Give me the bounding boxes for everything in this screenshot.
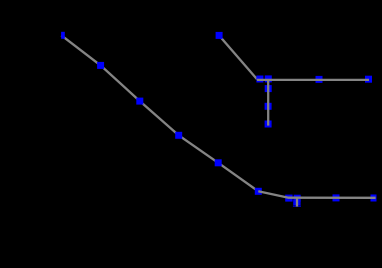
node marker A11 (below bottom junction) (293, 199, 300, 205)
node marker B4 (middle of top horizontal) (316, 76, 323, 83)
edge: bottom horizontal line drawn over markers (258, 191, 375, 198)
node marker B2 (left of top junction) (256, 76, 263, 83)
node marker A10 (right end of bottom line) (371, 195, 377, 202)
edge: top horizontal line drawn over markers (257, 79, 369, 81)
node marker A3 (136, 98, 143, 105)
node marker A8 (bottom junction) (294, 195, 301, 202)
node marker B6 (top vertical arm) (265, 85, 272, 92)
node marker A6 (255, 188, 262, 195)
node marker A1 (clipped half, left end of chain) (61, 32, 65, 39)
node marker B8 (bottom of top vertical arm) (265, 121, 272, 128)
node marker A7 (left of bottom junction) (285, 195, 292, 202)
node marker B3 (top junction) (265, 75, 272, 82)
edge: top vertical line drawn over markers (267, 80, 269, 126)
node marker B7 (top vertical arm) (265, 103, 272, 110)
node marker B1 (top of upper-right diagonal) (216, 32, 223, 39)
edge: long descending chain polyline (series A) (61, 35, 258, 191)
edge: bottom short vertical stub drawn over markers (296, 198, 298, 207)
node marker B5 (right end of top horizontal) (365, 76, 372, 83)
node marker A5 (215, 159, 222, 166)
node marker A12 (clipped sliver at bottom) (293, 206, 301, 207)
node marker A4 (175, 132, 182, 139)
node marker A9 (333, 194, 340, 201)
node marker A2 (97, 62, 104, 69)
edge: top diagonal from node (218,34) to junction (219, 35, 258, 80)
